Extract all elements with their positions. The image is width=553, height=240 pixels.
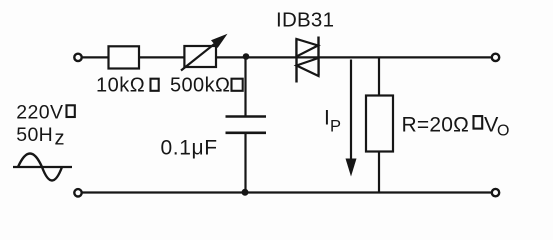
svg-text:z: z xyxy=(55,128,65,150)
svg-text:I: I xyxy=(324,106,330,129)
svg-text:500kΩ: 500kΩ xyxy=(170,75,230,97)
svg-text:10kΩ: 10kΩ xyxy=(96,75,145,97)
svg-text:0.1μF: 0.1μF xyxy=(161,137,218,160)
svg-text:IDB31: IDB31 xyxy=(276,8,334,31)
svg-text:R=20Ω: R=20Ω xyxy=(402,113,470,136)
svg-text:P: P xyxy=(330,118,341,136)
svg-text:220V: 220V xyxy=(16,101,63,123)
svg-text:50H: 50H xyxy=(16,124,53,146)
svg-text:O: O xyxy=(497,122,509,139)
